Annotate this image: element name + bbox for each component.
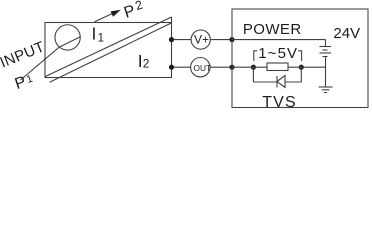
svg-text:P1: P1 <box>13 71 36 93</box>
svg-text:I1: I1 <box>92 23 105 44</box>
svg-text:TVS: TVS <box>262 94 296 111</box>
svg-text:1~5V: 1~5V <box>258 45 298 62</box>
svg-text:POWER: POWER <box>243 21 302 38</box>
svg-text:I2: I2 <box>138 51 150 71</box>
svg-text:V+: V+ <box>194 33 209 47</box>
svg-text:24V: 24V <box>333 25 360 42</box>
svg-text:OUT: OUT <box>194 63 212 73</box>
svg-text:P2: P2 <box>121 0 146 22</box>
svg-text:INPUT: INPUT <box>0 38 47 71</box>
